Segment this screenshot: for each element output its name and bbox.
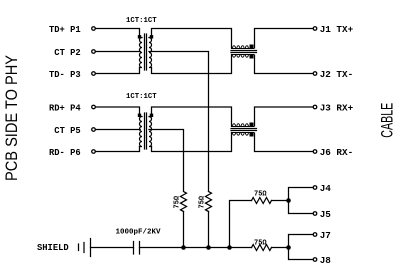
node J8 terminal xyxy=(313,258,317,262)
svg-text:J7: J7 xyxy=(320,230,331,241)
wire T2 secondary top to choke L2 xyxy=(152,107,232,126)
wire T1 secondary top to choke L1 xyxy=(152,29,232,49)
svg-text:PCB SIDE TO PHY: PCB SIDE TO PHY xyxy=(3,55,21,181)
svg-text:J4: J4 xyxy=(320,183,332,194)
svg-text:J1 TX+: J1 TX+ xyxy=(320,24,354,35)
wire P6 to T2 primary bottom xyxy=(96,147,140,152)
svg-text:J6 RX-: J6 RX- xyxy=(320,147,353,158)
node P3 terminal xyxy=(92,72,96,76)
transformer T2 core xyxy=(145,113,147,149)
wire ground bus from C1 to R4 junction xyxy=(140,247,289,249)
wire P5 to T2 primary center tap xyxy=(96,129,141,131)
node J2 terminal xyxy=(313,72,317,76)
svg-text:75Ω: 75Ω xyxy=(199,195,207,208)
svg-text:CABLE: CABLE xyxy=(379,103,397,138)
wire R2 bottom to ground bus xyxy=(208,212,210,248)
resistor R3 75ohm horizontal xyxy=(252,198,272,204)
shield tick small xyxy=(78,244,80,251)
svg-text:1CT:1CT: 1CT:1CT xyxy=(126,17,157,25)
svg-text:RD+ P4: RD+ P4 xyxy=(49,103,81,113)
svg-text:J3 RX+: J3 RX+ xyxy=(320,102,354,113)
svg-text:75Ω: 75Ω xyxy=(174,195,182,208)
transformer T1 primary polarity dot xyxy=(138,35,141,38)
svg-text:CT P2: CT P2 xyxy=(54,48,80,58)
transformer T2 secondary winding xyxy=(149,117,152,147)
wire T2 secondary center tap to bus A xyxy=(149,130,184,192)
wire P1 to T1 primary top xyxy=(96,29,140,37)
wire junction to J7 xyxy=(289,235,314,248)
choke L1 bottom winding xyxy=(232,55,254,58)
choke L1 top winding xyxy=(232,46,254,49)
wire T1 secondary center tap to bus B xyxy=(149,52,209,192)
choke L1 core xyxy=(231,51,257,53)
svg-text:75Ω: 75Ω xyxy=(254,240,267,248)
wire choke L1 bottom to J2 xyxy=(255,55,314,74)
node P2 terminal xyxy=(92,50,96,54)
svg-text:75Ω: 75Ω xyxy=(254,191,267,199)
svg-text:1000pF/2KV: 1000pF/2KV xyxy=(116,229,162,237)
choke L2 top winding xyxy=(232,124,254,127)
svg-text:RD- P6: RD- P6 xyxy=(49,148,81,158)
wire P3 to T1 primary bottom xyxy=(96,68,140,74)
wire choke L2 top to J3 xyxy=(255,107,314,126)
choke L1 top polarity dot xyxy=(250,45,254,49)
node P1 terminal xyxy=(92,27,96,31)
node J7 terminal xyxy=(313,233,317,237)
transformer T2 secondary polarity dot xyxy=(150,114,153,117)
svg-text:TD+ P1: TD+ P1 xyxy=(49,25,81,35)
shield plate bar xyxy=(90,239,92,257)
svg-text:TD- P3: TD- P3 xyxy=(49,70,81,80)
wire P2 to T1 primary center tap xyxy=(96,51,141,53)
transformer T1 core xyxy=(145,34,147,70)
shield tick large xyxy=(83,243,85,253)
wire P4 to T2 primary top xyxy=(96,107,140,115)
choke L2 top polarity dot xyxy=(250,123,254,127)
choke L2 core xyxy=(231,129,257,131)
node J4 terminal xyxy=(313,186,317,190)
node P6 terminal xyxy=(92,150,96,154)
node J6 terminal xyxy=(313,150,317,154)
wire junction to J4 xyxy=(289,188,314,201)
capacitor C1 left plate xyxy=(133,242,135,255)
choke L2 bottom winding xyxy=(232,133,254,136)
junction R3 branch on ground bus xyxy=(227,245,232,250)
svg-text:CT P5: CT P5 xyxy=(54,126,80,136)
junction bus B on ground bus xyxy=(206,245,211,250)
resistor R4 75ohm horizontal on ground bus xyxy=(252,245,272,251)
transformer T2 primary winding xyxy=(140,117,143,147)
wire ground bus up to R3 xyxy=(230,201,252,248)
wire R3 to J4 J5 junction xyxy=(272,200,289,202)
junction J4 J5 split xyxy=(286,198,291,203)
choke L1 bottom polarity dot xyxy=(250,55,254,59)
choke L2 bottom polarity dot xyxy=(250,133,254,137)
svg-text:J2 TX-: J2 TX- xyxy=(320,69,353,80)
transformer T1 secondary winding xyxy=(149,38,152,68)
transformer T2 primary polarity dot xyxy=(138,114,141,117)
svg-text:1CT:1CT: 1CT:1CT xyxy=(126,93,157,101)
resistor R1 75ohm vertical on bus A xyxy=(181,192,187,212)
wire choke L1 top to J1 xyxy=(255,29,314,49)
wire T1 secondary bottom to choke L1 xyxy=(152,55,232,74)
wire shield to capacitor C1 xyxy=(91,247,134,249)
node J1 terminal xyxy=(313,27,317,31)
node P4 terminal xyxy=(92,105,96,109)
junction J7 J8 split xyxy=(286,245,291,250)
resistor R2 75ohm vertical on bus B xyxy=(206,192,212,212)
node J5 terminal xyxy=(313,212,317,216)
transformer T1 primary winding xyxy=(140,38,143,68)
wire T2 secondary bottom to choke L2 xyxy=(152,133,232,152)
node P5 terminal xyxy=(92,128,96,132)
node J3 terminal xyxy=(313,105,317,109)
wire choke L2 bottom to J6 xyxy=(255,133,314,152)
wire junction to J5 xyxy=(289,201,314,214)
transformer T1 secondary polarity dot xyxy=(150,35,153,38)
wire R1 bottom to ground bus xyxy=(183,212,185,248)
capacitor C1 right plate xyxy=(139,242,141,255)
svg-text:J5: J5 xyxy=(320,209,332,220)
wire junction to J8 xyxy=(289,248,314,260)
svg-text:J8: J8 xyxy=(320,255,332,265)
junction bus A on ground bus xyxy=(181,245,186,250)
svg-text:SHIELD: SHIELD xyxy=(37,243,69,253)
